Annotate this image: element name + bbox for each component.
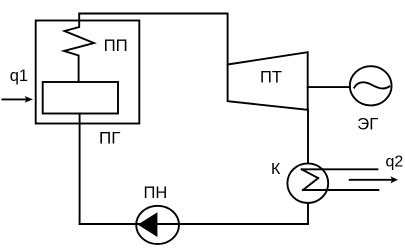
svg-text:q2: q2	[386, 154, 404, 171]
q1 heat input arrow line	[2, 98, 27, 100]
steam generator box ПГ	[36, 21, 140, 124]
wire: generator top to turbine inlet	[79, 14, 227, 65]
svg-text:q1: q1	[10, 67, 28, 85]
q2 heat reject arrow line	[350, 179, 393, 181]
cooling coil diagonal 1	[302, 169, 319, 178]
turbine ПТ trapezoid	[228, 52, 308, 110]
wire: turbine exhaust down to condenser	[307, 110, 309, 163]
cooling water bottom line	[303, 189, 379, 191]
svg-text:ПН: ПН	[144, 184, 168, 202]
condenser К circle	[287, 163, 328, 203]
wire: condenser down to bottom line	[307, 204, 309, 224]
riser wire: drum down through box to bottom line	[79, 114, 81, 225]
cooling coil diagonal 2	[303, 178, 318, 190]
bottom condensate wire	[80, 223, 308, 225]
svg-text:ПП: ПП	[104, 36, 128, 55]
superheater ПП zigzag	[64, 21, 94, 83]
svg-text:ПГ: ПГ	[99, 129, 120, 148]
evaporator drum (inner rectangle)	[43, 82, 118, 114]
svg-text:ПТ: ПТ	[260, 69, 282, 87]
q2 arrowhead	[390, 176, 398, 183]
svg-text:ЭГ: ЭГ	[357, 115, 378, 134]
pump impeller triangle (points left)	[138, 212, 158, 237]
svg-text:К: К	[271, 161, 281, 178]
electric generator ЭГ circle	[350, 66, 392, 105]
cooling water top line	[302, 168, 378, 170]
feed pump ПН circle	[136, 206, 179, 244]
q1 arrowhead	[25, 96, 33, 103]
sine wave inside generator	[354, 82, 389, 88]
wire: turbine to electric generator	[308, 86, 350, 88]
